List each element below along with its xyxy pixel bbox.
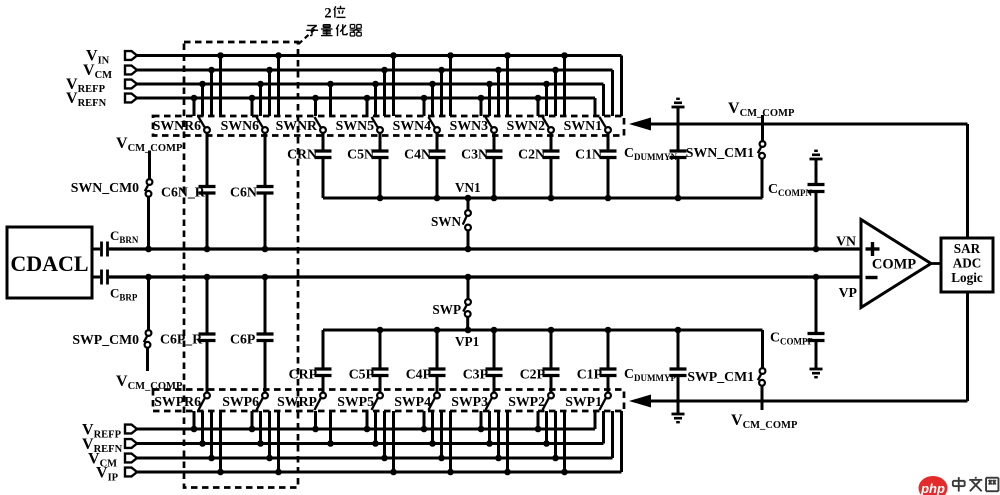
svg-text:C2P: C2P <box>520 367 546 382</box>
svg-text:VN: VN <box>836 234 856 249</box>
svg-text:C5N: C5N <box>347 147 374 162</box>
svg-text:C6P: C6P <box>230 332 256 347</box>
svg-text:SWNR: SWNR <box>276 118 318 133</box>
svg-text:SWP4: SWP4 <box>394 394 431 409</box>
svg-text:C3N: C3N <box>461 147 488 162</box>
svg-text:SWN4: SWN4 <box>393 118 431 133</box>
wire V_IN bus (top) <box>137 56 622 117</box>
svg-text:C6P_R: C6P_R <box>160 332 203 347</box>
svg-text:VN1: VN1 <box>455 180 481 195</box>
switch SWP5 <box>337 393 383 410</box>
switch SWN3 <box>450 117 497 133</box>
svg-text:2: 2 <box>324 6 331 22</box>
label 2-bit sub-quantizer (2位 子量化器) <box>299 6 362 45</box>
input terminal V_IN <box>86 48 137 67</box>
svg-text:SWRP: SWRP <box>277 394 317 409</box>
svg-text:SWP1: SWP1 <box>565 394 602 409</box>
switch SWP1 <box>565 393 611 410</box>
switch SWN4 <box>393 117 440 133</box>
svg-text:C6N_R: C6N_R <box>161 185 206 200</box>
wire VP1 rail <box>323 329 763 332</box>
svg-text:SWN1: SWN1 <box>564 118 602 133</box>
input terminal V_REFN (bottom) <box>82 436 137 455</box>
wire VN line to comparator <box>109 247 861 250</box>
op-amp comparator COMP <box>861 220 931 308</box>
capacitor C1N and column wire <box>575 133 616 201</box>
switch SWP_CM1 <box>687 330 765 410</box>
capacitor C4P and column wire <box>406 327 446 393</box>
svg-text:COMP: COMP <box>872 257 916 273</box>
capacitor C6P and column wire <box>230 274 274 393</box>
wire top feedback from SAR logic with arrow into switch box <box>629 118 968 239</box>
wire V_REFP bus (top) <box>137 84 604 116</box>
dashed box top switch row (sub-DAC switches N side) <box>153 116 624 136</box>
svg-text:VP: VP <box>839 285 858 300</box>
capacitor C_COMPP with ground below <box>770 274 825 378</box>
switch SWP <box>432 274 471 334</box>
wire VN1 rail <box>323 197 763 200</box>
php 中文网 watermark logo <box>919 476 999 495</box>
wire taps and junctions for SWP6 <box>249 411 282 475</box>
capacitor C6N_R and column wire <box>161 133 216 252</box>
switch SWN5 <box>336 117 383 133</box>
capacitor CRN and column wire <box>287 133 331 198</box>
capacitor C3P and column wire <box>463 327 503 393</box>
svg-text:CRN: CRN <box>287 147 317 162</box>
wire taps and junctions for SWN2 <box>535 52 568 116</box>
svg-text:C4N: C4N <box>404 147 431 162</box>
wire taps and junctions for SWRP <box>312 411 334 447</box>
svg-text:php: php <box>920 481 945 495</box>
capacitor C_BRP <box>92 270 138 303</box>
block SAR ADC Logic <box>941 238 993 292</box>
switch SWP6 <box>222 393 268 410</box>
svg-text:VP1: VP1 <box>455 334 479 349</box>
svg-text:SWN2: SWN2 <box>507 118 545 133</box>
wire V_REFN bus (bottom) <box>137 411 604 444</box>
svg-text:SWP3: SWP3 <box>451 394 488 409</box>
dashed box bottom switch row (sub-DAC switches P side) <box>153 390 624 412</box>
wire taps and junctions for SWP3 <box>478 411 511 475</box>
wire taps and junctions for SWP4 <box>421 411 454 475</box>
wire V_IP bus (bottom) <box>137 411 622 472</box>
wire V_REFP bus (bottom) <box>137 411 595 429</box>
svg-text:SWP_CM0: SWP_CM0 <box>72 332 139 347</box>
dashed box 2-bit sub-quantizer <box>184 42 298 488</box>
switch SWNR <box>276 117 326 133</box>
wire V_CM bus (top) <box>137 70 613 116</box>
svg-text:SWP2: SWP2 <box>508 394 545 409</box>
wire taps and junctions for SWP2 <box>535 411 568 475</box>
switch SWP2 <box>508 393 554 410</box>
switch SWN1 <box>564 117 611 133</box>
wire VP line to comparator <box>109 275 861 278</box>
switch SWRP <box>277 393 326 410</box>
capacitor C_DUMMYP with ground below <box>624 327 687 423</box>
switch SWP_CM0 <box>72 274 151 371</box>
wire taps and junctions for SWPR6 <box>191 411 224 475</box>
wire taps and junctions for SWN3 <box>478 52 511 116</box>
block CDACL <box>7 227 92 298</box>
input terminal V_CM (bottom) <box>88 451 137 470</box>
input terminal V_IP (bottom) <box>96 465 137 484</box>
wire taps and junctions for SWN4 <box>421 52 454 116</box>
wire V_CM bus (bottom) <box>137 411 613 458</box>
capacitor C6N and column wire <box>230 133 274 252</box>
capacitor C5N and column wire <box>347 133 388 201</box>
wire taps and junctions for SWP5 <box>364 411 397 475</box>
svg-text:C5P: C5P <box>349 367 375 382</box>
svg-text:CRP: CRP <box>289 367 318 382</box>
switch SWP3 <box>451 393 497 410</box>
capacitor C4N and column wire <box>404 133 445 201</box>
switch SWP4 <box>394 393 440 410</box>
capacitor C_BRN <box>92 228 139 257</box>
switch SWN_CM1 <box>686 115 766 198</box>
wire bottom feedback from SAR logic with arrow into switch box <box>629 292 968 408</box>
input terminal V_REFP (top) <box>66 76 137 95</box>
switch SWN <box>431 195 471 253</box>
svg-text:SWNR6: SWNR6 <box>153 118 201 133</box>
switch SWN6 <box>221 117 268 133</box>
capacitor CRP and column wire <box>289 330 332 393</box>
switch SWN_CM0 <box>71 151 153 253</box>
capacitor C_DUMMYN with ground above <box>624 99 687 202</box>
wire taps and junctions for SWNR <box>312 81 334 116</box>
capacitor C2N and column wire <box>518 133 559 201</box>
capacitor C6P_R and column wire <box>160 274 216 393</box>
wire taps and junctions for SWN6 <box>249 52 282 116</box>
wire taps and junctions for SWNR6 <box>191 52 224 116</box>
input terminal V_REFP (bottom) <box>82 422 137 441</box>
svg-text:C3P: C3P <box>463 367 489 382</box>
svg-text:SAR: SAR <box>954 241 981 256</box>
svg-text:SWN: SWN <box>431 214 462 229</box>
svg-text:C1N: C1N <box>575 147 602 162</box>
svg-text:SWP: SWP <box>432 302 461 317</box>
input terminal V_REFN (top) <box>66 90 137 109</box>
svg-text:ADC: ADC <box>953 256 982 271</box>
svg-text:Logic: Logic <box>951 270 983 285</box>
svg-text:SWN_CM1: SWN_CM1 <box>686 145 754 160</box>
svg-text:SWN6: SWN6 <box>221 118 259 133</box>
svg-text:SWP6: SWP6 <box>222 394 259 409</box>
svg-text:SWP5: SWP5 <box>337 394 374 409</box>
svg-text:SWN_CM0: SWN_CM0 <box>71 180 139 195</box>
capacitor C_COMPN with ground above <box>768 151 825 253</box>
switch SWNR6 <box>153 117 210 133</box>
svg-text:CDACL: CDACL <box>10 251 88 276</box>
capacitor C2P and column wire <box>520 327 560 393</box>
capacitor C3N and column wire <box>461 133 502 201</box>
svg-text:SWN5: SWN5 <box>336 118 374 133</box>
switch SWN2 <box>507 117 554 133</box>
svg-text:C4P: C4P <box>406 367 432 382</box>
wire taps and junctions for SWN5 <box>364 52 397 116</box>
switch SWPR6 <box>154 393 210 410</box>
svg-text:SWN3: SWN3 <box>450 118 488 133</box>
svg-text:C6N: C6N <box>230 185 257 200</box>
svg-text:C2N: C2N <box>518 147 545 162</box>
wire comparator output <box>931 262 941 265</box>
svg-text:SWPR6: SWPR6 <box>154 394 201 409</box>
input terminal V_CM <box>83 62 137 81</box>
wire V_REFN bus (top) <box>137 98 595 116</box>
svg-text:C1P: C1P <box>577 367 603 382</box>
svg-text:SWP_CM1: SWP_CM1 <box>687 369 754 384</box>
capacitor C5P and column wire <box>349 327 389 393</box>
capacitor C1P and column wire <box>577 327 617 393</box>
